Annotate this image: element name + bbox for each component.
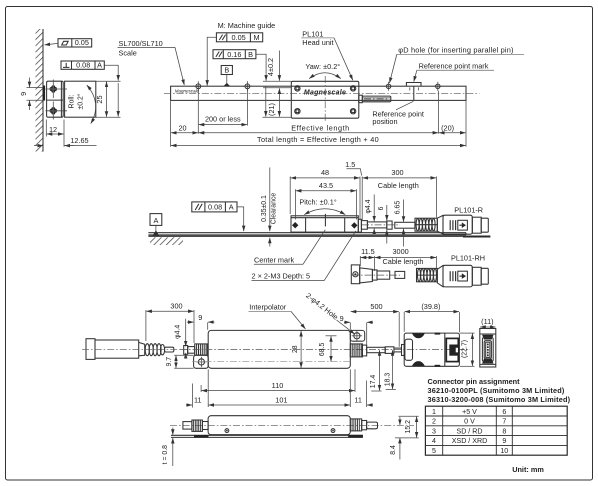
output connector body xyxy=(402,333,460,367)
svg-text:1.5: 1.5 xyxy=(345,160,355,169)
svg-text:Effective length: Effective length xyxy=(291,124,350,133)
second leader line to head bottom xyxy=(265,86,267,116)
PL101 Head unit label xyxy=(301,29,353,80)
head corner screw TL xyxy=(295,86,300,91)
svg-text:8: 8 xyxy=(502,427,506,435)
dim 48 ext lines xyxy=(290,177,360,221)
bottom view centerline xyxy=(170,424,414,426)
svg-text:110: 110 xyxy=(272,381,284,390)
dim 18.3 xyxy=(384,350,396,389)
wall hatching xyxy=(36,29,44,152)
svg-text:3000: 3000 xyxy=(392,247,408,256)
svg-text:6.65: 6.65 xyxy=(395,201,402,215)
Reference point position label xyxy=(372,101,424,126)
scale top extension line xyxy=(263,87,291,89)
head unit (side view) xyxy=(291,216,361,232)
dim 300 cable length xyxy=(363,168,437,218)
svg-text:A: A xyxy=(97,61,102,70)
svg-text:28: 28 xyxy=(292,345,299,353)
dim 43.5 ext lines xyxy=(295,189,356,219)
Roll label xyxy=(69,93,85,109)
interpolator right ear with screw xyxy=(350,330,364,341)
Pitch label xyxy=(299,198,336,207)
output connector mating end xyxy=(445,333,459,366)
datum A leader (to top/bottom faces) xyxy=(104,65,118,116)
svg-text:SL700/SL710: SL700/SL710 xyxy=(119,39,163,48)
svg-text:15.2: 15.2 xyxy=(405,420,412,434)
svg-text:A: A xyxy=(229,203,234,212)
mounting screw right on bar xyxy=(242,81,252,91)
svg-text:Roll:: Roll: xyxy=(69,95,76,109)
svg-text:11: 11 xyxy=(354,396,362,405)
svg-text:3: 3 xyxy=(432,427,436,435)
dim phi4.4 (left cable) xyxy=(175,319,186,358)
Center mark label xyxy=(254,230,325,265)
svg-text:0.05: 0.05 xyxy=(231,33,245,42)
phiD hole 1 xyxy=(384,82,392,91)
svg-text:A: A xyxy=(153,216,158,225)
svg-text:(20): (20) xyxy=(441,124,454,133)
svg-text:Unit: mm: Unit: mm xyxy=(512,465,544,474)
pin table xyxy=(425,406,567,455)
svg-text:0.35±0.1: 0.35±0.1 xyxy=(261,195,268,222)
svg-text:25: 25 xyxy=(95,95,104,103)
svg-text:6: 6 xyxy=(378,206,385,210)
svg-text:SD / RD: SD / RD xyxy=(456,427,482,435)
interpolator left ear with screw xyxy=(194,355,209,368)
reference point position line xyxy=(413,86,415,100)
dim 9 (left) xyxy=(19,78,43,111)
cable coil (strain relief) xyxy=(415,218,437,231)
screw (upper, clover head) xyxy=(46,80,68,99)
cable assembly from head xyxy=(361,221,415,230)
leader frame 0.16B to head top ext xyxy=(256,54,266,80)
svg-text:t = 0.8: t = 0.8 xyxy=(162,445,169,465)
interpolator body xyxy=(208,330,350,368)
dim 110 xyxy=(201,369,355,392)
svg-text:Scale: Scale xyxy=(119,49,137,58)
svg-text:4: 4 xyxy=(432,437,436,445)
svg-text:6: 6 xyxy=(502,408,506,416)
bottom view right end xyxy=(350,419,377,431)
head mounting block xyxy=(47,81,64,117)
svg-text:PL101-R: PL101-R xyxy=(454,206,483,215)
svg-text:9: 9 xyxy=(198,313,202,322)
bottom view left end xyxy=(183,420,208,431)
scale bar body xyxy=(171,86,466,100)
svg-text:101: 101 xyxy=(275,396,287,405)
svg-text:17.4: 17.4 xyxy=(370,375,377,389)
connector pin assignment heading xyxy=(428,377,571,404)
svg-text:Reference point mark: Reference point mark xyxy=(419,61,489,70)
svg-text:M: Machine guide: M: Machine guide xyxy=(218,21,276,30)
dim 25 extension lines xyxy=(96,81,121,117)
svg-text:9: 9 xyxy=(502,437,506,445)
Yaw label xyxy=(305,62,340,71)
head corner screw BR xyxy=(350,109,355,114)
svg-text:M: M xyxy=(254,33,260,42)
mounting plate (t=0.8) xyxy=(171,435,363,438)
PL101-R label xyxy=(454,206,483,215)
dim 12.65 xyxy=(34,136,97,145)
parallelism frame 0.16 B xyxy=(213,50,256,59)
svg-text:68.5: 68.5 xyxy=(319,343,326,357)
svg-text:2: 2 xyxy=(432,418,436,426)
dim (22.7) xyxy=(460,333,475,366)
phiD hole 2 xyxy=(434,82,442,91)
svg-text:10: 10 xyxy=(500,447,508,455)
mounting surface line xyxy=(148,235,490,237)
svg-text:0 V: 0 V xyxy=(464,418,475,426)
yaw arc xyxy=(309,73,341,79)
dim Effective length xyxy=(199,124,439,133)
PL101-RH label xyxy=(451,253,485,262)
svg-text:φ4.4: φ4.4 xyxy=(175,325,182,339)
svg-text:(22.7): (22.7) xyxy=(461,340,468,358)
dim 25 xyxy=(95,82,107,117)
svg-text:1: 1 xyxy=(432,408,436,416)
flatness frame 0.05 xyxy=(58,38,92,47)
perpendicularity frame 0.08 A xyxy=(61,61,104,70)
datum A box and triangle xyxy=(150,214,162,236)
svg-text:position: position xyxy=(372,117,397,126)
svg-text:Clearance: Clearance xyxy=(271,193,278,225)
head main body (section) xyxy=(65,81,96,117)
svg-text:(21): (21) xyxy=(267,103,276,116)
dim 28 (interpolator height) xyxy=(292,331,301,368)
svg-text:±0.2°: ±0.2° xyxy=(77,93,85,109)
head-side plug row2 xyxy=(351,265,404,284)
svg-text:48: 48 xyxy=(321,168,329,177)
screw (lower, clover head) xyxy=(46,102,68,120)
dim 6.65 xyxy=(395,200,404,247)
leader 0.08A to scale xyxy=(237,207,244,231)
head bottom extension line xyxy=(263,116,292,118)
dim 3000 cable row2 xyxy=(375,247,437,268)
svg-text:8.4: 8.4 xyxy=(390,445,397,455)
svg-text:Center mark: Center mark xyxy=(254,255,294,264)
svg-text:200 or less: 200 or less xyxy=(205,114,241,123)
svg-text:300: 300 xyxy=(391,168,403,177)
clearance dim 0.35 xyxy=(261,168,278,247)
dim (21) xyxy=(267,88,279,116)
scale strip (side view) xyxy=(148,233,466,235)
svg-text:B: B xyxy=(248,50,253,59)
dim 6 xyxy=(378,205,387,244)
surface hatching xyxy=(150,237,183,245)
M: Machine guide label xyxy=(218,21,276,30)
svg-text:0.08: 0.08 xyxy=(76,61,90,70)
svg-text:+5 V: +5 V xyxy=(462,408,477,416)
dim 48 xyxy=(291,168,360,178)
svg-text:36210-0100PL (Sumitomo 3M Limi: 36210-0100PL (Sumitomo 3M Limited) xyxy=(428,386,565,395)
svg-text:2 × 2-M3 Depth: 5: 2 × 2-M3 Depth: 5 xyxy=(252,272,311,281)
dim 101 + 11 left + 11 right xyxy=(186,369,373,407)
svg-text:9.7: 9.7 xyxy=(166,357,173,367)
svg-text:9: 9 xyxy=(340,314,344,323)
svg-text:12: 12 xyxy=(49,125,57,134)
dim 20 xyxy=(171,124,198,133)
Unit: mm xyxy=(512,465,544,474)
svg-text:11: 11 xyxy=(194,396,202,405)
dim 9.7 (ear height) xyxy=(166,355,194,368)
reference point mark bracket xyxy=(406,83,421,91)
wall line xyxy=(42,29,44,152)
diamond marker right xyxy=(351,222,357,228)
connector front view xyxy=(480,329,496,368)
svg-text:PL101-RH: PL101-RH xyxy=(451,253,485,262)
dim 200 or less xyxy=(199,114,247,124)
svg-text:43.5: 43.5 xyxy=(319,181,333,190)
svg-text:XSD / XRD: XSD / XRD xyxy=(452,437,487,445)
dim 11.5 row2 xyxy=(360,247,374,271)
diamond marker left xyxy=(292,222,298,228)
Reference point mark label xyxy=(414,61,494,81)
dim 9 (right of interpolator) xyxy=(340,314,373,345)
small Magnescale logo on bar xyxy=(175,89,200,94)
svg-text:Connector pin assignment: Connector pin assignment xyxy=(428,377,521,386)
head top extension line xyxy=(263,80,291,82)
svg-text:500: 500 xyxy=(370,302,382,311)
svg-text:Pitch: ±0.1°: Pitch: ±0.1° xyxy=(299,198,336,207)
svg-text:11.5: 11.5 xyxy=(361,247,375,256)
svg-text:18.3: 18.3 xyxy=(384,373,391,387)
svg-text:9: 9 xyxy=(19,92,28,96)
bottom view screws xyxy=(225,429,335,433)
interpolator centerline (cable axis) xyxy=(180,349,470,351)
dim (20) xyxy=(439,124,466,133)
svg-text:Yaw: ±0.2°: Yaw: ±0.2° xyxy=(305,62,340,71)
interpolator left thread boss xyxy=(195,344,208,355)
svg-text:Cable length: Cable length xyxy=(378,181,419,190)
svg-text:5: 5 xyxy=(432,447,436,455)
extension lines for length dims xyxy=(171,89,466,147)
dim 12 xyxy=(46,120,64,147)
svg-text:(11): (11) xyxy=(481,317,493,326)
svg-text:0.16: 0.16 xyxy=(227,50,241,59)
dim phi4.4 xyxy=(365,195,374,234)
svg-text:Total length = Effective lengt: Total length = Effective length + 40 xyxy=(257,135,379,144)
Magnescale logo on head xyxy=(304,90,346,97)
svg-text:Interpolator: Interpolator xyxy=(249,303,286,312)
dim 43.5 xyxy=(296,181,356,191)
leader frame 0.05M to scale top xyxy=(207,37,216,85)
head vertical centerline xyxy=(324,76,326,123)
phiD hole label xyxy=(390,46,525,83)
svg-text:(39.8): (39.8) xyxy=(421,302,440,311)
flatness leader xyxy=(45,43,59,45)
Interpolator label xyxy=(249,303,306,329)
roll arc xyxy=(87,85,96,124)
dim 500 xyxy=(351,302,400,347)
head corner screw TR xyxy=(350,86,355,91)
bar centerline xyxy=(164,92,480,94)
svg-text:0.05: 0.05 xyxy=(75,38,89,47)
svg-text:Magnescale: Magnescale xyxy=(175,89,200,94)
extension rod xyxy=(359,95,391,103)
connector PL101-RH xyxy=(437,265,488,287)
svg-text:φ4.4: φ4.4 xyxy=(365,199,372,213)
svg-text:12.65: 12.65 xyxy=(70,136,88,145)
dim 300 (interpolator cable) xyxy=(146,301,194,343)
interpolator right thread boss xyxy=(350,344,401,357)
dim Total length xyxy=(171,135,466,145)
dim (11) xyxy=(480,317,495,327)
svg-text:0.08: 0.08 xyxy=(208,203,222,212)
svg-text:Head unit: Head unit xyxy=(302,38,333,47)
connector PL101-R xyxy=(437,215,488,234)
datum B box xyxy=(221,66,232,87)
dim t=0.8 xyxy=(162,428,173,467)
head unit box (top view) xyxy=(291,81,359,118)
head corner screw BL xyxy=(295,109,300,114)
svg-text:20: 20 xyxy=(178,124,186,133)
SL700/SL710 Scale label xyxy=(118,39,185,85)
parallelism frame 0.08 A (middle) xyxy=(192,202,237,212)
svg-text:300: 300 xyxy=(170,301,182,310)
bottom view body xyxy=(208,416,350,435)
dim 1.5 xyxy=(345,160,362,220)
svg-text:36310-3200-008 (Sumitomo 3M Li: 36310-3200-008 (Sumitomo 3M Limited) xyxy=(428,395,571,404)
svg-text:Cable length: Cable length xyxy=(383,257,424,266)
dim 68.5 (hole spacing) xyxy=(319,336,336,362)
2-phi4.2 Hole label (diagonal) xyxy=(304,291,354,334)
mounting screw left on bar xyxy=(193,81,203,91)
svg-text:7: 7 xyxy=(502,418,506,426)
parallelism frame 0.05 M xyxy=(216,33,262,42)
dim 15.2 xyxy=(395,416,419,438)
dim (39.8) xyxy=(404,302,459,332)
scale cross-section (black strip on wall) xyxy=(43,86,45,101)
dim 9 (left of interpolator) xyxy=(187,313,215,330)
dim 8.4 xyxy=(390,417,400,460)
svg-text:φD hole (for inserting paralle: φD hole (for inserting parallel pin) xyxy=(398,46,513,55)
2x2-M3 label xyxy=(252,231,356,281)
left big connector xyxy=(82,339,186,360)
coil row2 xyxy=(417,268,438,281)
interpolator left plug xyxy=(184,346,195,355)
dim 17.4 xyxy=(370,350,381,391)
dim 4+-0.2 xyxy=(266,51,279,81)
svg-text:B: B xyxy=(224,66,229,75)
center mark line on head xyxy=(324,214,326,227)
svg-text:4±0.2: 4±0.2 xyxy=(266,58,275,76)
interpolator centerline (screw axis) xyxy=(192,361,352,363)
pitch arc xyxy=(304,209,345,215)
